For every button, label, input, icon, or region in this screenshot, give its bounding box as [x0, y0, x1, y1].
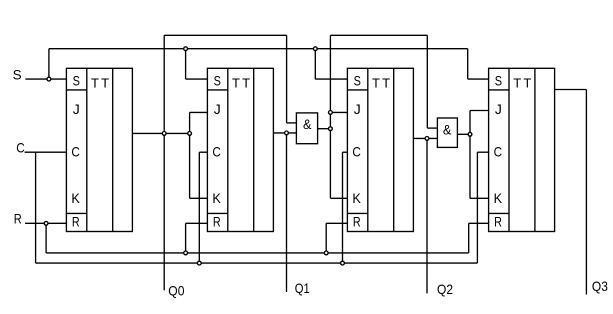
JK flip-flop DD1 (TT) — [66, 68, 132, 231]
node DD5 out — [329, 127, 333, 131]
wire into DD2.K — [190, 197, 208, 199]
wire C riser to DD2 — [198, 152, 200, 263]
wire Q0 vertical x=164.2 — [163, 35, 165, 290]
wire into DD4.S — [468, 78, 489, 80]
node Q0 — [162, 132, 166, 136]
JK flip-flop DD3 (TT) — [347, 68, 413, 231]
svg-text:C: C — [16, 139, 25, 155]
svg-text:TT: TT — [232, 76, 252, 91]
wire into DD3.S — [315, 78, 347, 80]
svg-text:K: K — [212, 190, 221, 206]
wire into DD3.K — [330, 197, 347, 199]
svg-text:&: & — [443, 121, 452, 137]
wire into DD3.C — [343, 151, 348, 153]
wire DD6 output — [457, 133, 470, 135]
node Q1 — [285, 131, 289, 135]
wire R riser to DD4 — [468, 223, 470, 253]
wire C input to DD1.C — [25, 151, 67, 153]
svg-text:C: C — [352, 144, 361, 160]
wire DD1.Q output — [132, 132, 189, 134]
wire R riser to DD3 — [325, 223, 327, 253]
svg-text:C: C — [212, 144, 221, 160]
wire DD5 output — [318, 128, 331, 130]
wire into DD4.J — [470, 110, 489, 112]
node R bus DD3 — [324, 251, 328, 255]
svg-text:TT: TT — [513, 76, 533, 91]
wire DD2.Q output to DD5 input 2 — [273, 132, 296, 134]
svg-text:R: R — [494, 213, 502, 229]
wire R drop at x=46.1 — [45, 223, 47, 253]
wire DD4.Q output — [555, 89, 587, 91]
wire S riser at x=48.9 — [48, 49, 50, 79]
wire into DD2.C — [199, 151, 207, 153]
wire C drop at x=35.6 — [35, 152, 37, 263]
wire C riser to DD4 — [476, 152, 478, 263]
node R bus DD2 — [184, 251, 188, 255]
svg-text:TT: TT — [372, 76, 392, 91]
svg-text:K: K — [71, 190, 80, 206]
wire into DD5 input 1 — [287, 122, 297, 124]
AND gate DD5 (&) — [296, 113, 317, 144]
node DD6 out — [468, 132, 472, 136]
wire into DD3.J — [330, 111, 347, 113]
svg-text:J: J — [214, 101, 221, 117]
wire top run Q0 to DD5 — [164, 34, 286, 36]
svg-text:J: J — [354, 101, 361, 117]
svg-text:S: S — [13, 67, 22, 83]
node S bus DD2 — [184, 47, 188, 51]
svg-text:K: K — [352, 190, 361, 206]
node S tap — [47, 77, 51, 81]
svg-text:R: R — [14, 210, 22, 226]
wire S input to DD1.S — [25, 78, 66, 80]
wire into DD2.J — [190, 111, 208, 113]
svg-text:S: S — [214, 73, 221, 89]
JK flip-flop DD2 (TT) — [207, 68, 273, 231]
svg-text:Q1: Q1 — [295, 280, 310, 296]
wire top run DD5 to DD6 — [330, 34, 427, 36]
wire Q2 vertical x=427 — [426, 138, 428, 293]
wire T vertical DD2 — [189, 112, 191, 198]
wire into DD4.K — [470, 197, 489, 199]
svg-text:R: R — [72, 213, 80, 229]
wire into DD4.C — [477, 151, 488, 153]
svg-text:S: S — [354, 73, 361, 89]
svg-text:Q2: Q2 — [437, 281, 453, 297]
JK flip-flop DD4 (TT) — [489, 68, 555, 231]
wire R input to DD1.R — [25, 222, 66, 224]
wire T vertical DD3 — [329, 35, 331, 198]
svg-text:Q3: Q3 — [592, 278, 608, 294]
svg-text:R: R — [353, 213, 361, 229]
node DD3 J — [329, 111, 333, 115]
AND gate DD6 (&) — [437, 118, 457, 147]
svg-text:J: J — [73, 101, 80, 117]
wire C riser to DD3 — [342, 152, 344, 263]
wire into DD2.S — [186, 78, 208, 80]
wire T vertical DD4 — [469, 111, 471, 199]
svg-text:S: S — [495, 73, 502, 89]
wire R riser to DD2 — [185, 223, 187, 253]
node T2 — [188, 132, 192, 136]
wire C bus horizontal y=263.1 — [36, 262, 478, 264]
svg-text:&: & — [303, 116, 312, 132]
wire DD3.Q output to DD6 input 2 — [413, 137, 437, 139]
svg-text:Q0: Q0 — [168, 283, 184, 299]
node C bus DD2 — [197, 261, 201, 265]
wire drop to DD6 input 1 — [426, 35, 428, 128]
wire into DD3.R — [326, 222, 347, 224]
svg-text:J: J — [495, 101, 502, 117]
wire S bus horizontal y=48.7 — [49, 48, 468, 50]
wire Q3 vertical x=586.4 — [585, 90, 587, 295]
svg-text:S: S — [73, 73, 80, 89]
wire into DD6 input 1 — [427, 127, 437, 129]
wire S drop to DD2 — [185, 49, 187, 79]
node R tap — [44, 221, 48, 225]
node C bus DD3 — [341, 261, 345, 265]
svg-text:C: C — [71, 144, 80, 160]
svg-text:K: K — [494, 190, 503, 206]
svg-text:R: R — [213, 213, 221, 229]
svg-text:TT: TT — [91, 76, 111, 91]
wire into DD2.R — [186, 222, 208, 224]
wire into DD4.R — [469, 222, 489, 224]
wire Q1 vertical x=286.5 — [286, 133, 288, 292]
svg-text:C: C — [494, 144, 503, 160]
wire R bus horizontal y=252.9 — [46, 252, 469, 254]
wire drop to DD5 input 1 — [286, 35, 288, 123]
wire S drop to DD3 — [314, 49, 316, 79]
node Q2 — [425, 137, 429, 141]
node S bus DD3 — [313, 47, 317, 51]
wire S drop to DD4 — [467, 49, 469, 79]
